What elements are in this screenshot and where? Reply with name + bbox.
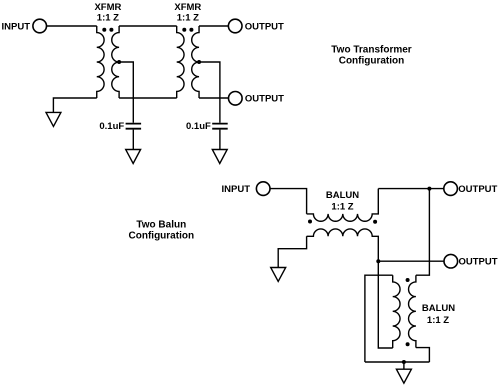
phase dot B2 bottom [406,342,410,346]
ground G4 [271,268,286,282]
wire B1 bottom-left to ground [278,236,306,267]
wire B2 top-left link [365,275,393,362]
svg-text:BALUN: BALUN [326,190,359,201]
capacitor C2 [212,124,228,129]
wire node A down to balun B2 right side [416,189,430,276]
svg-text:INPUT: INPUT [222,184,251,195]
phase dot B1 right [373,220,377,224]
svg-text:Configuration: Configuration [129,231,195,242]
svg-text:OUTPUT: OUTPUT [459,257,498,268]
wire T2 to OUTPUT top [199,25,228,27]
svg-text:1:1 Z: 1:1 Z [97,12,119,23]
wire node B to OUTPUT 2 [378,260,444,262]
ground G2 [126,150,141,164]
terminal circle INPUT [33,19,47,33]
wire T2 tap to C2 [199,62,220,123]
junction dot T1 center tap [117,60,121,64]
balun B2 left winding [393,275,400,348]
phase dot T1 primary [102,28,106,32]
ground G3 [212,150,227,164]
phase dot B2 top [406,278,410,282]
svg-text:1:1 Z: 1:1 Z [331,201,353,212]
transformer T2 secondary winding [192,26,199,98]
balun B1 top winding [307,189,379,222]
terminal circle OUTPUT bottom [229,92,243,106]
terminal circle OUTPUT 1 [444,182,458,196]
svg-text:OUTPUT: OUTPUT [458,184,497,195]
wire C1 to ground [132,130,134,150]
wire INPUT to T1 [47,25,97,27]
capacitor C1 [126,124,142,129]
wire B2 right winding bottom to bottom bus [416,348,430,362]
wire T1 bottom to ground branch [53,98,96,112]
junction dot ground node [402,360,406,364]
svg-text:XFMR: XFMR [174,2,201,13]
phase dot T2 primary [182,28,186,32]
terminal circle OUTPUT top [228,19,242,33]
ground G1 [46,112,61,126]
transformer T2 primary winding [177,26,184,98]
svg-text:XFMR: XFMR [94,2,121,13]
junction dot T2 center tap [197,60,201,64]
svg-text:Two Balun: Two Balun [136,220,186,231]
terminal circle OUTPUT 2 [444,254,458,268]
junction dot node B [376,259,380,263]
transformer T1 primary winding [97,26,104,98]
wire T1 tap to C1 [119,62,133,123]
wire node B down to B2 left winding bottom [378,261,392,348]
wire T1 to T2 (top) [119,25,177,27]
svg-text:0.1uF: 0.1uF [186,121,211,132]
svg-text:0.1uF: 0.1uF [99,121,124,132]
svg-text:1:1 Z: 1:1 Z [177,12,199,23]
balun B1 bottom winding [307,229,379,261]
svg-text:Configuration: Configuration [339,56,405,67]
svg-text:INPUT: INPUT [2,21,31,32]
wire B1 top-right to OUTPUT 1 [378,188,443,190]
phase dot T2 secondary [189,28,193,32]
junction dot node A [427,187,431,191]
wire T2 bottom to OUTPUT 2 [199,97,228,99]
svg-text:Two Transformer: Two Transformer [331,45,411,56]
wire INPUT to balun B1 [270,189,307,214]
transformer T1 secondary winding [112,26,119,98]
svg-text:OUTPUT: OUTPUT [245,21,284,32]
wire bottom bus [365,361,430,363]
svg-text:OUTPUT: OUTPUT [245,94,284,105]
balun B2 right winding [409,275,416,347]
ground G5 [396,369,411,383]
wire C2 to ground [219,130,221,150]
wire ground stub [403,362,405,369]
wire T1 bottom to T2 bottom [119,97,177,99]
phase dot T1 secondary [109,28,113,32]
phase dot B1 left [308,220,312,224]
svg-text:1:1 Z: 1:1 Z [427,315,449,326]
terminal circle INPUT [256,182,270,196]
svg-text:BALUN: BALUN [422,303,455,314]
